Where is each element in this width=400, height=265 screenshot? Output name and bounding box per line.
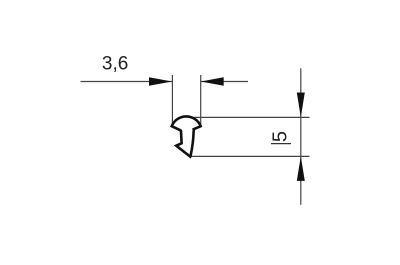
arrowhead down-pointing (5 top) bbox=[297, 93, 305, 118]
arrowhead right-pointing (3,6 left) bbox=[149, 77, 172, 85]
svg-text:5: 5 bbox=[269, 131, 291, 142]
extension line bottom (profile bottom, dim 5) bbox=[192, 155, 310, 157]
profile outline (mushroom T-seal cross-section) bbox=[172, 116, 201, 156]
arrowhead left-pointing (3,6 right) bbox=[201, 77, 224, 85]
dimension line left segment (3,6) bbox=[81, 81, 173, 83]
svg-text:3,6: 3,6 bbox=[102, 54, 128, 75]
arrowhead up-pointing (5 bottom) bbox=[297, 156, 305, 181]
underline of dimension text 5 bbox=[271, 143, 291, 145]
dimension line right segment (3,6) bbox=[201, 81, 248, 83]
extension line right (profile right edge) bbox=[200, 75, 202, 126]
dimension line vertical (5) bbox=[300, 68, 302, 205]
extension line top (profile top, dim 5) bbox=[194, 116, 310, 118]
extension line left (profile left edge) bbox=[171, 75, 173, 125]
